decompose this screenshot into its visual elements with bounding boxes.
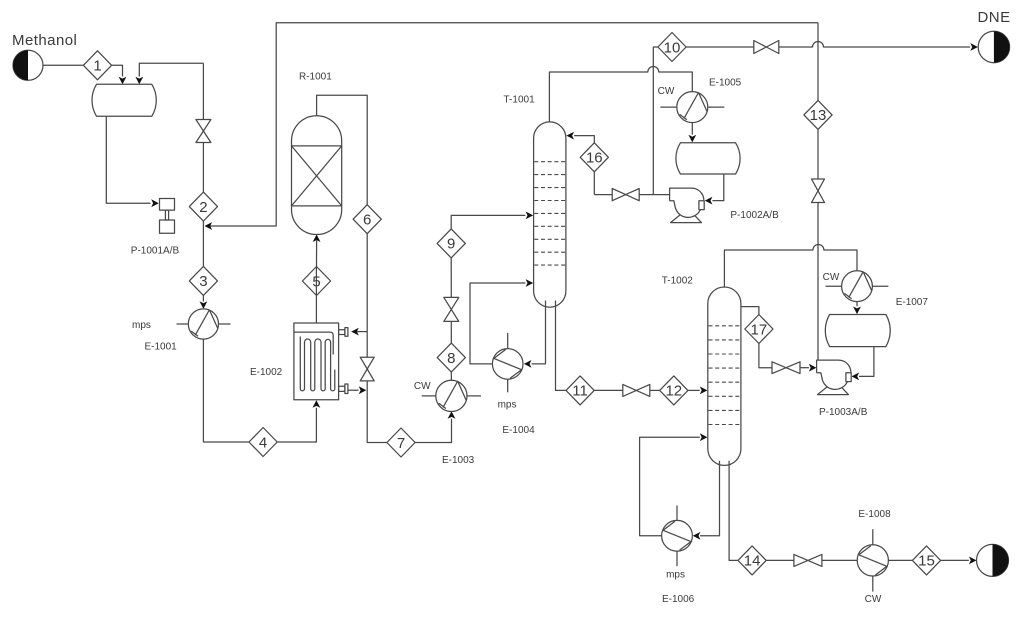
- stream tag 13: [804, 100, 832, 129]
- wire distillate riser to tag10: [653, 47, 658, 195]
- svg-text:14: 14: [744, 553, 761, 570]
- wire recycle header: [208, 23, 818, 226]
- wire R-1001 top to tag6: [317, 95, 368, 205]
- wire E-1003 to tag8: [450, 372, 452, 380]
- arrow from E-1002 bottom nozzle: [359, 386, 367, 394]
- stream tag 1: [83, 51, 111, 80]
- E-1002 inlet tube: [294, 332, 333, 354]
- wire E-1004 return to T-1001: [470, 283, 525, 364]
- T-1001 trays: [534, 162, 565, 265]
- T-1002 trays: [709, 326, 741, 425]
- arrow into pump P-1003 suction: [809, 364, 817, 372]
- valve V6: [812, 129, 825, 360]
- wire E-1001 to tag4: [203, 339, 249, 442]
- column T-1002: [708, 287, 741, 465]
- svg-text:mps: mps: [132, 320, 151, 331]
- svg-text:3: 3: [199, 273, 207, 290]
- arrow feed into T-1002: [700, 387, 708, 395]
- arrow into DNE outlet: [970, 43, 978, 51]
- arrow into E-1001: [200, 301, 208, 309]
- svg-text:13: 13: [810, 107, 827, 124]
- reactor R-1001: [292, 116, 342, 235]
- svg-text:7: 7: [397, 435, 405, 452]
- stream tag 11: [566, 376, 594, 405]
- wire feed drum to pump P-1001: [106, 116, 150, 203]
- stream tag 3: [189, 266, 217, 295]
- heat exchanger E-1008: [857, 529, 888, 591]
- stream tag 4: [249, 428, 277, 457]
- stream tag 8: [437, 343, 465, 372]
- svg-text:Methanol: Methanol: [12, 32, 77, 49]
- wire tag15 to product outlet: [941, 559, 969, 561]
- column T-1001: [534, 122, 566, 307]
- wire T-1002 bottoms to tag14: [729, 461, 738, 561]
- stream tag 12: [660, 376, 688, 405]
- svg-text:10: 10: [664, 39, 681, 56]
- arrow recycle into feed line: [205, 222, 213, 230]
- wire tag12 to T-1002: [688, 389, 700, 391]
- svg-text:9: 9: [447, 236, 455, 253]
- wire tag2 to tag3: [202, 221, 204, 266]
- wire drum D1 to pump P-1002: [712, 174, 723, 201]
- arrow into pump P-1003: [852, 373, 860, 381]
- svg-text:4: 4: [259, 434, 267, 451]
- arrow feed into T-1001: [526, 212, 534, 220]
- wire tag7 to E-1003: [415, 419, 451, 443]
- wire tag3 to E-1001: [202, 295, 204, 301]
- arrow into feed drum inlet2: [135, 77, 143, 85]
- stream tag 7: [387, 428, 415, 457]
- wire tag9 to T-1001 feed: [451, 215, 525, 229]
- valve V9: [766, 554, 857, 566]
- arrow into E-1002 top nozzle: [351, 328, 359, 336]
- arrow into feed drum inlet1: [119, 77, 127, 85]
- svg-text:DNE: DNE: [978, 9, 1011, 26]
- svg-text:E-1006: E-1006: [662, 594, 695, 605]
- svg-text:E-1002: E-1002: [250, 367, 283, 378]
- wire tag5 to R-1001: [316, 241, 318, 267]
- wire T-1001 overhead to E-1005: [549, 67, 692, 122]
- valve V7 bottoms: [594, 384, 660, 396]
- stream input Methanol: [13, 50, 43, 80]
- pump P-1003A/B: [817, 360, 852, 395]
- wire tag4 to E-1002: [277, 408, 316, 442]
- svg-text:P-1002A/B: P-1002A/B: [730, 210, 779, 221]
- wire E-1006 return to T-1002: [640, 437, 700, 536]
- arrow reboiler return into T-1002: [700, 433, 708, 441]
- stream tag 6: [353, 205, 381, 234]
- stream tag 14: [738, 546, 766, 575]
- heat exchanger E-1002 shell: [294, 323, 339, 400]
- svg-text:E-1007: E-1007: [896, 297, 929, 308]
- wire tag1 to feed drum: [112, 65, 123, 76]
- svg-text:17: 17: [751, 321, 768, 338]
- stream tag 2: [189, 192, 217, 221]
- arrow into pump P-1001: [151, 199, 159, 207]
- svg-text:mps: mps: [498, 399, 517, 410]
- pump P-1001A/B: [160, 199, 175, 234]
- wire T-1001 bottoms to tag11: [556, 301, 567, 391]
- wire to tag7: [367, 381, 387, 443]
- stream output bottoms: [977, 544, 1009, 576]
- wire E-1002 bottom nozzle to main line: [348, 389, 359, 391]
- wire E-1002 to tag5: [315, 267, 317, 324]
- svg-text:12: 12: [665, 383, 682, 400]
- E-1002 bottom nozzle: [339, 384, 348, 394]
- wire recycle branch 13: [817, 23, 819, 101]
- stream tag 10: [658, 33, 686, 62]
- wire E-1008 to tag15: [888, 559, 912, 561]
- svg-text:E-1003: E-1003: [442, 455, 475, 466]
- arrow into R-1001 bottom: [313, 234, 321, 242]
- svg-text:CW: CW: [865, 594, 882, 605]
- wire E-1007 to drum D2: [856, 302, 858, 307]
- pump P-1002A/B: [670, 188, 705, 223]
- heat exchanger E-1001: [177, 309, 231, 339]
- wire Methanol to tag1: [43, 64, 83, 66]
- stream tag 5: [302, 267, 330, 296]
- svg-text:E-1004: E-1004: [502, 425, 535, 436]
- heat exchanger E-1006 reboiler: [662, 506, 693, 567]
- wire drum D2 to pump P-1003: [859, 347, 874, 377]
- heat exchanger E-1003: [422, 380, 481, 411]
- wire distillate to DNE with hop: [779, 42, 970, 47]
- stream tag 15: [912, 546, 940, 575]
- svg-text:CW: CW: [658, 86, 675, 97]
- heat exchanger E-1005 condenser: [660, 92, 724, 123]
- svg-text:8: 8: [447, 350, 455, 367]
- svg-text:mps: mps: [666, 570, 685, 581]
- feed drum vessel: [92, 84, 156, 116]
- svg-text:P-1001A/B: P-1001A/B: [131, 245, 180, 256]
- valve V5 distillate: [686, 41, 779, 54]
- wire T-1001 bottoms to E-1004: [532, 301, 546, 364]
- wire T-1002 side draw to tag17: [741, 307, 759, 315]
- arrow into E-1002 bottom: [313, 400, 321, 408]
- svg-text:R-1001: R-1001: [299, 72, 332, 83]
- svg-text:T-1001: T-1001: [504, 95, 536, 106]
- wire branch into E-1002 top nozzle: [355, 331, 368, 333]
- arrow reboiler return into T-1001: [526, 279, 534, 287]
- arrow reflux into T-1001: [566, 132, 574, 140]
- svg-text:CW: CW: [414, 381, 431, 392]
- stream output DNE: [978, 31, 1009, 62]
- wire tag16 to T-1001 top: [574, 136, 594, 143]
- arrow into E-1003 bottom: [448, 411, 456, 419]
- arrow into E-1004: [524, 360, 532, 368]
- arrow into pump P-1002: [705, 197, 713, 205]
- arrow into product outlet: [969, 557, 977, 565]
- wire T-1002 overhead to E-1007 with hop: [724, 245, 857, 288]
- heat exchanger E-1007 condenser: [826, 271, 889, 302]
- E-1002 top nozzle: [339, 328, 348, 337]
- valve V1 on recycle feed line: [196, 63, 211, 192]
- svg-text:11: 11: [572, 383, 588, 400]
- wire recycle into feed drum: [139, 63, 203, 76]
- svg-text:CW: CW: [823, 272, 840, 283]
- svg-text:1: 1: [93, 58, 101, 75]
- E-1002 coil: [300, 337, 335, 391]
- svg-text:6: 6: [363, 212, 371, 229]
- reflux drum D1: [676, 143, 740, 174]
- svg-text:T-1002: T-1002: [662, 276, 694, 287]
- valve V2 bypass: [360, 357, 374, 381]
- stream tag 9: [437, 229, 465, 258]
- arrow into drum D2: [853, 307, 861, 315]
- svg-text:16: 16: [586, 150, 603, 167]
- svg-text:2: 2: [199, 199, 207, 216]
- stream tag 16: [580, 143, 608, 172]
- valve V4 reflux: [594, 189, 669, 201]
- wire reflux riser to tag16: [593, 172, 595, 195]
- wire E-1005 to reflux drum: [691, 123, 693, 135]
- wire tag6 down to E-1002 branch: [366, 234, 368, 358]
- reflux drum D2: [825, 315, 890, 347]
- svg-text:E-1005: E-1005: [709, 78, 742, 89]
- svg-text:P-1003A/B: P-1003A/B: [819, 407, 868, 418]
- stream tag 17: [745, 315, 773, 344]
- valve V3: [444, 258, 459, 343]
- svg-text:15: 15: [918, 553, 935, 570]
- arrow into reflux drum D1: [688, 135, 696, 143]
- wire T-1002 bottoms to E-1006: [700, 461, 719, 536]
- svg-text:E-1001: E-1001: [145, 341, 178, 352]
- svg-text:5: 5: [312, 273, 320, 290]
- svg-text:E-1008: E-1008: [858, 509, 891, 520]
- heat exchanger E-1004 reboiler: [492, 333, 523, 392]
- arrow into E-1006: [693, 532, 701, 540]
- valve V8: [759, 344, 809, 374]
